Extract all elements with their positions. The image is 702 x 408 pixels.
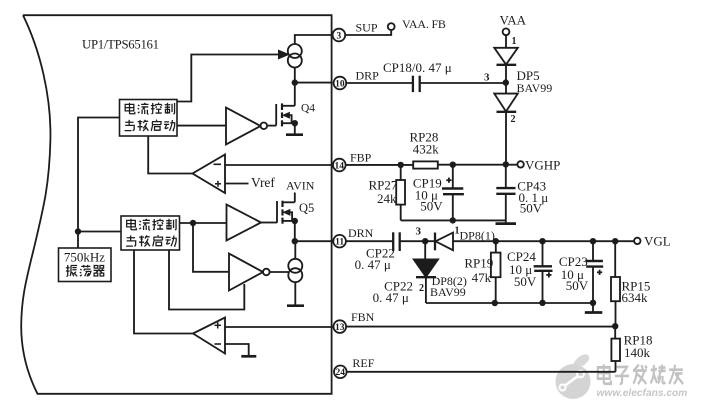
svg-text:750kHz: 750kHz bbox=[64, 250, 105, 265]
svg-text:50V: 50V bbox=[420, 199, 443, 214]
svg-text:Vref: Vref bbox=[251, 175, 275, 190]
svg-text:Q4: Q4 bbox=[301, 103, 315, 115]
svg-text:VGHP: VGHP bbox=[525, 158, 560, 173]
svg-text:www.elecfans.com: www.elecfans.com bbox=[597, 388, 688, 399]
svg-text:BAV99: BAV99 bbox=[517, 81, 553, 95]
svg-text:Q5: Q5 bbox=[299, 201, 314, 215]
svg-text:VAA. FB: VAA. FB bbox=[402, 17, 446, 31]
svg-text:FBP: FBP bbox=[350, 151, 372, 165]
svg-text:BAV99: BAV99 bbox=[430, 285, 466, 299]
svg-text:13: 13 bbox=[335, 323, 345, 333]
svg-text:FBN: FBN bbox=[351, 310, 375, 324]
svg-text:24: 24 bbox=[336, 368, 346, 378]
svg-text:432k: 432k bbox=[413, 142, 440, 157]
svg-text:11: 11 bbox=[335, 238, 344, 248]
svg-text:1: 1 bbox=[512, 36, 517, 47]
svg-text:DP8(1): DP8(1) bbox=[460, 229, 495, 243]
svg-text:VGL: VGL bbox=[644, 234, 671, 249]
svg-text:CP18/0. 47 μ: CP18/0. 47 μ bbox=[383, 60, 452, 75]
svg-text:3: 3 bbox=[337, 31, 342, 41]
svg-text:REF: REF bbox=[352, 356, 374, 370]
svg-text:140k: 140k bbox=[624, 345, 651, 360]
svg-text:50V: 50V bbox=[514, 274, 537, 289]
svg-text:AVIN: AVIN bbox=[286, 179, 315, 193]
svg-text:14: 14 bbox=[335, 161, 345, 171]
svg-text:0. 47 μ: 0. 47 μ bbox=[355, 257, 391, 272]
svg-text:2: 2 bbox=[511, 114, 516, 125]
svg-text:10: 10 bbox=[335, 79, 345, 89]
svg-text:UP1/TPS65161: UP1/TPS65161 bbox=[82, 38, 159, 52]
svg-text:2: 2 bbox=[419, 283, 424, 294]
svg-text:24k: 24k bbox=[377, 191, 397, 206]
svg-text:VAA: VAA bbox=[500, 13, 527, 28]
svg-text:50V: 50V bbox=[566, 278, 589, 293]
svg-text:3: 3 bbox=[416, 226, 422, 238]
svg-text:RP19: RP19 bbox=[464, 256, 493, 271]
svg-text:DRP: DRP bbox=[356, 69, 380, 83]
svg-text:634k: 634k bbox=[622, 290, 649, 305]
svg-text:0. 47 μ: 0. 47 μ bbox=[373, 290, 409, 305]
svg-text:SUP: SUP bbox=[356, 21, 378, 35]
svg-text:50V: 50V bbox=[520, 201, 543, 216]
svg-text:DRN: DRN bbox=[348, 226, 374, 240]
svg-text:3: 3 bbox=[484, 72, 490, 84]
svg-text:47k: 47k bbox=[472, 270, 492, 285]
